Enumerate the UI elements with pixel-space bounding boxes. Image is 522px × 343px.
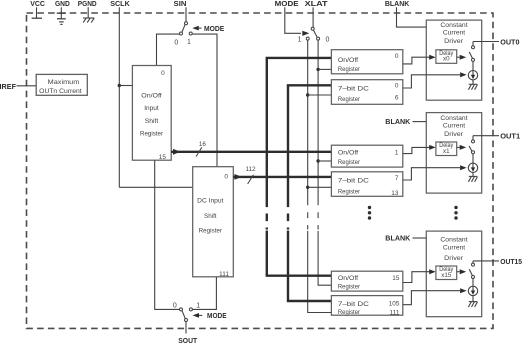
block Constant Current Driver ch15	[426, 231, 481, 317]
output switch ch15	[472, 261, 474, 263]
svg-text:BLANK: BLANK	[385, 117, 411, 126]
wire DC register to current source ch0	[403, 75, 460, 88]
svg-text:XLAT: XLAT	[305, 0, 328, 8]
output switch ch1	[472, 136, 474, 140]
svg-text:13: 13	[391, 190, 399, 197]
wire BLANK to ch0 driver	[397, 7, 427, 27]
wire On/Off register to delay ch15	[403, 272, 430, 283]
svg-text:OUT0: OUT0	[500, 37, 519, 46]
switch SOUT lever	[182, 311, 185, 319]
arrow bus 16	[173, 149, 181, 155]
svg-text:x0: x0	[443, 56, 450, 63]
svg-text:BLANK: BLANK	[385, 0, 410, 8]
svg-text:IREF: IREF	[0, 82, 16, 91]
svg-text:Driver: Driver	[444, 38, 463, 45]
chassis ground PGND	[83, 17, 94, 19]
block DC Input Shift Register	[193, 167, 234, 277]
wire On/Off register to delay ch0	[403, 57, 430, 64]
wire IREF	[17, 85, 37, 87]
delay block x0 ch0	[436, 50, 457, 64]
chassis ground ch0	[472, 80, 474, 84]
svg-text:Register: Register	[338, 188, 360, 195]
svg-text:OUT15: OUT15	[500, 257, 522, 266]
wire SCLK into DC shift register	[119, 186, 192, 188]
switch XLAT pivot	[311, 27, 314, 30]
svg-text:Maximum: Maximum	[48, 79, 80, 86]
wire SIN contact0 to On/Off shift register	[157, 34, 180, 65]
switch SIN contact 1	[189, 32, 192, 35]
current source ch0	[468, 71, 477, 80]
ellipsis between ch1 and ch15 (driver column)	[454, 206, 457, 209]
svg-text:0: 0	[174, 39, 178, 46]
block On/Off Input Shift Register	[132, 66, 171, 161]
svg-text:Register: Register	[140, 131, 163, 138]
register On/Off ch1	[331, 145, 402, 167]
chassis ground ch1	[472, 173, 474, 177]
svg-text:Current: Current	[443, 245, 466, 252]
svg-text:15: 15	[392, 275, 400, 282]
wire PGND	[87, 7, 89, 18]
svg-text:0: 0	[224, 173, 228, 180]
svg-text:x15: x15	[441, 272, 452, 279]
wire On/Off shift register to SOUT contact 0	[155, 160, 180, 309]
svg-text:MODE: MODE	[207, 311, 227, 320]
svg-text:7: 7	[395, 175, 399, 182]
svg-text:0: 0	[395, 82, 399, 89]
svg-text:0: 0	[395, 53, 399, 60]
wire On/Off register to delay ch1	[403, 147, 430, 153]
svg-text:VCC: VCC	[30, 0, 45, 8]
bus 112 vertical tap	[287, 85, 289, 199]
bus 16 vertical tap	[266, 58, 268, 200]
power rail symbol VCC	[32, 17, 42, 19]
wire SIN	[185, 7, 187, 22]
svg-text:Register: Register	[338, 159, 360, 166]
svg-text:Register: Register	[338, 66, 360, 73]
svg-text:Shift: Shift	[204, 213, 217, 220]
current source ch1	[468, 163, 477, 172]
wire XLAT latch line A (contact1, to DC registers)	[307, 40, 309, 199]
svg-text:7–bit DC: 7–bit DC	[338, 301, 370, 308]
svg-text:Register: Register	[199, 228, 222, 235]
svg-text:15: 15	[159, 154, 167, 161]
svg-text:Constant: Constant	[440, 115, 467, 122]
svg-text:DC Input: DC Input	[197, 197, 223, 204]
svg-text:0: 0	[173, 302, 177, 309]
bus 112 branch to ch0 DC register	[287, 84, 332, 86]
svg-text:Shift: Shift	[145, 118, 159, 125]
svg-text:Register: Register	[338, 96, 360, 103]
svg-text:7–bit DC: 7–bit DC	[338, 177, 370, 184]
svg-text:1: 1	[187, 39, 191, 46]
svg-text:111: 111	[219, 271, 229, 278]
svg-text:1: 1	[395, 150, 399, 157]
svg-text:Driver: Driver	[444, 131, 463, 138]
wire delay to switch ch1	[457, 146, 460, 148]
block Constant Current Driver ch1	[426, 113, 481, 194]
ground GND	[57, 12, 66, 14]
register On/Off ch15	[331, 271, 402, 291]
wire XLAT latch line B (contact0, to On/Off registers)	[317, 40, 319, 199]
svg-text:Current: Current	[443, 30, 466, 37]
junction latch B ch1	[316, 159, 319, 162]
svg-text:112: 112	[245, 166, 256, 173]
bus width tick 16	[196, 147, 202, 156]
switch SIN pivot	[185, 22, 188, 25]
switch SIN contact 0	[180, 32, 183, 35]
switch SOUT contact 1	[189, 308, 192, 311]
arrow bus 112	[234, 174, 242, 180]
svg-text:x1: x1	[443, 148, 450, 155]
bus width tick 112	[248, 175, 254, 184]
bus 16 branch to ch15 On/Off register	[266, 275, 332, 277]
switch SIN lever	[182, 25, 185, 32]
svg-text:7–bit DC: 7–bit DC	[338, 85, 370, 92]
svg-text:Register: Register	[338, 309, 360, 316]
output switch ch0	[472, 42, 474, 46]
junction SCLK to On/Off shift register	[118, 84, 121, 87]
svg-text:Constant: Constant	[440, 237, 467, 244]
svg-text:Constant: Constant	[440, 22, 467, 29]
wire output OUT0	[473, 41, 499, 43]
arrow MODE at SOUT switch	[193, 313, 200, 318]
svg-text:SCLK: SCLK	[110, 0, 130, 8]
wire delay to switch ch0	[457, 56, 460, 58]
wire SIN contact1 to DC shift register	[192, 34, 217, 167]
svg-text:1: 1	[298, 36, 302, 43]
arrow MODE at SIN switch	[192, 26, 199, 31]
switch SOUT pivot	[185, 319, 188, 322]
block Constant Current Driver ch0	[426, 20, 481, 100]
bus 112 branch to ch15 DC register	[287, 300, 332, 302]
svg-text:PGND: PGND	[78, 0, 97, 8]
block Maximum OUTn Current	[36, 74, 87, 95]
current source ch15	[468, 286, 477, 295]
switch XLAT contact 0	[317, 37, 320, 40]
svg-text:16: 16	[199, 141, 207, 148]
svg-text:OUT1: OUT1	[500, 132, 520, 141]
wire MODE down and right	[285, 7, 301, 33]
bus 112 from DC shift register	[233, 176, 331, 178]
junction latch A ch1	[306, 186, 309, 189]
svg-text:SOUT: SOUT	[178, 336, 197, 343]
wire XLAT	[312, 7, 314, 27]
svg-text:0: 0	[325, 37, 329, 44]
svg-text:1: 1	[196, 302, 200, 309]
svg-text:On/Off: On/Off	[141, 92, 162, 99]
switch XLAT lever	[313, 30, 317, 37]
register On/Off ch0	[331, 50, 402, 74]
svg-text:On/Off: On/Off	[338, 275, 358, 282]
svg-text:Current: Current	[443, 123, 466, 130]
register 7-bit DC ch1	[331, 172, 402, 197]
junction latch A ch0	[306, 93, 309, 96]
register 7-bit DC ch0	[331, 80, 402, 105]
svg-text:On/Off: On/Off	[338, 149, 358, 156]
svg-text:On/Off: On/Off	[338, 57, 358, 64]
switch XLAT contact 1	[306, 37, 309, 40]
svg-text:Register: Register	[338, 283, 360, 290]
svg-text:Input: Input	[144, 105, 159, 112]
svg-text:SIN: SIN	[174, 0, 187, 8]
wire GND	[60, 7, 62, 18]
switch SOUT contact 0	[180, 308, 183, 311]
wire VCC	[36, 7, 38, 18]
wire DC shift register to SOUT contact 1	[192, 277, 216, 310]
svg-text:BLANK: BLANK	[385, 234, 411, 243]
svg-text:Driver: Driver	[444, 255, 463, 262]
bus 16 from On/Off shift register	[171, 151, 331, 153]
chassis ground ch15	[472, 296, 474, 302]
wire delay to switch ch15	[457, 271, 460, 273]
wire SOUT	[185, 322, 187, 334]
wire output OUT1	[473, 135, 499, 137]
svg-text:111: 111	[390, 310, 400, 317]
wire DC register to current source ch15	[403, 291, 460, 305]
arrow MODE to XLAT switch	[302, 31, 309, 36]
junction latch B ch0	[316, 68, 319, 71]
svg-text:OUTn Current: OUTn Current	[39, 88, 82, 95]
svg-text:MODE: MODE	[204, 24, 224, 33]
wire SCLK vertical	[118, 7, 120, 187]
svg-text:105: 105	[389, 301, 400, 308]
register 7-bit DC ch15	[331, 296, 402, 316]
bus 16 branch to ch0 On/Off register	[266, 57, 332, 59]
svg-text:MODE: MODE	[275, 0, 299, 8]
delay block x1 ch1	[436, 142, 457, 156]
delay block x15 ch15	[436, 266, 457, 280]
svg-text:6: 6	[395, 95, 399, 102]
svg-text:0: 0	[161, 70, 165, 77]
wire output OUT15	[473, 260, 499, 262]
wire DC register to current source ch1	[403, 168, 460, 180]
ellipsis between ch1 and ch15 (registers column)	[368, 206, 371, 209]
svg-text:GND: GND	[55, 0, 70, 8]
